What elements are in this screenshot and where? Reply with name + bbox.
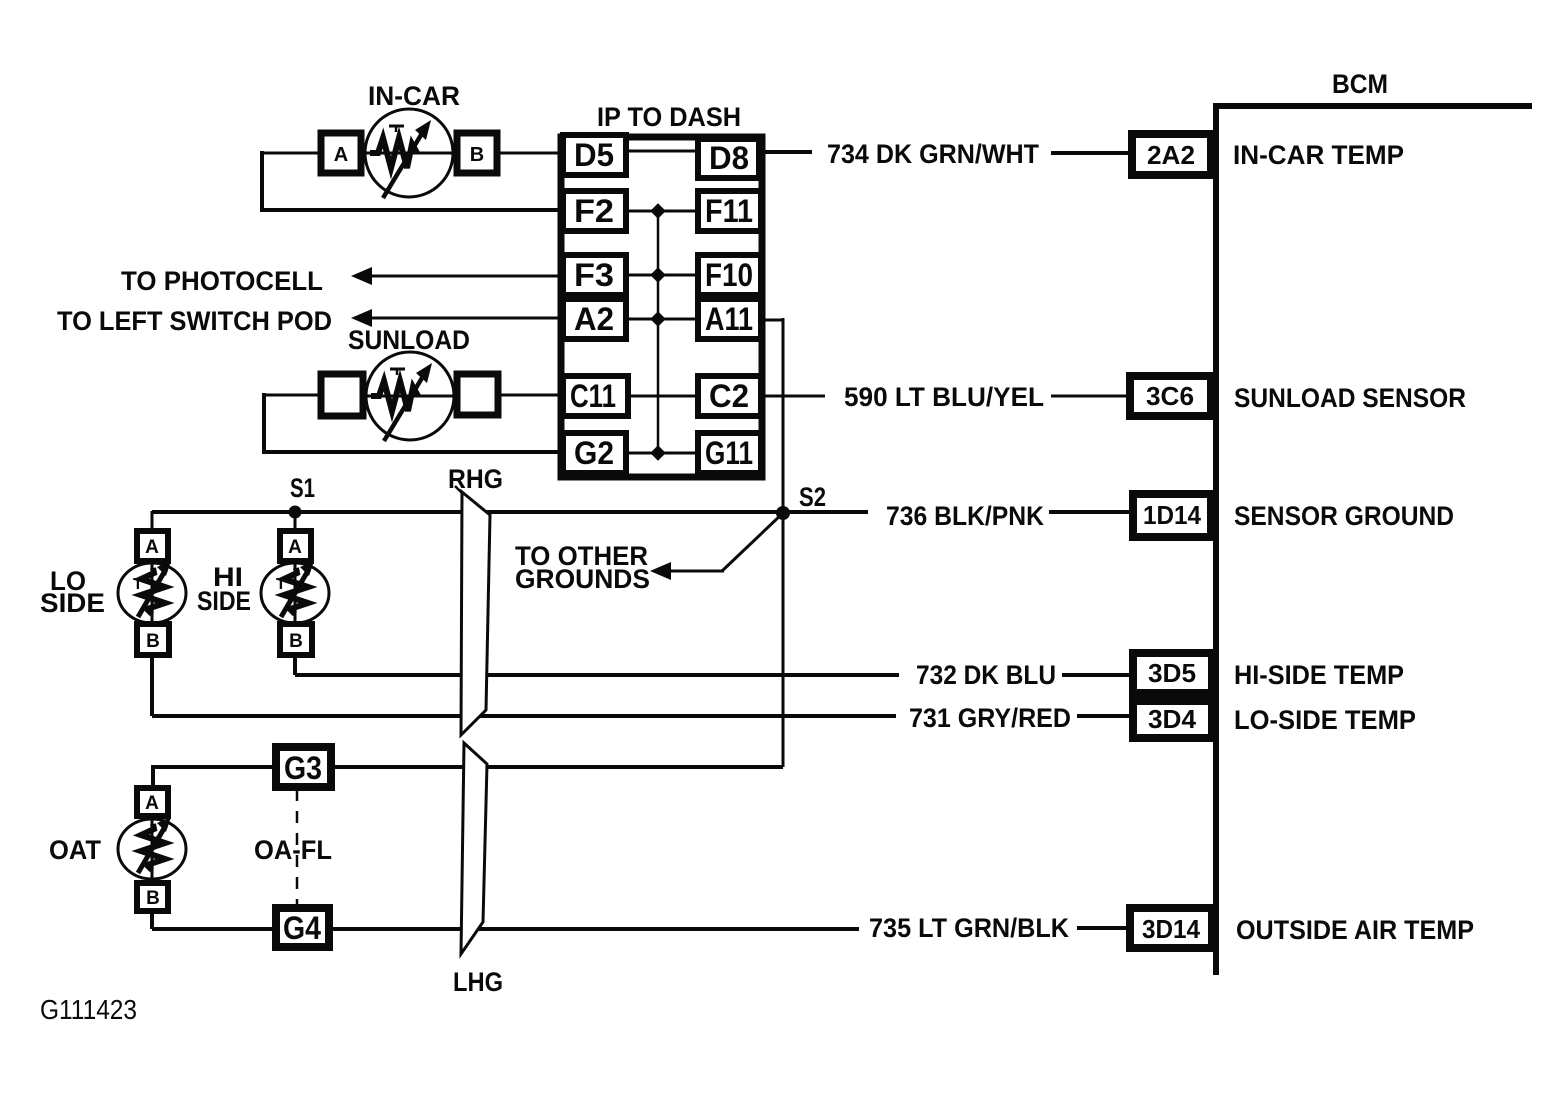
svg-text:OUTSIDE AIR TEMP: OUTSIDE AIR TEMP (1236, 915, 1474, 945)
svg-text:735 LT GRN/BLK: 735 LT GRN/BLK (869, 913, 1069, 943)
svg-text:S2: S2 (799, 482, 826, 512)
svg-text:A: A (334, 144, 348, 166)
svg-text:590 LT BLU/YEL: 590 LT BLU/YEL (844, 382, 1044, 412)
svg-text:D5: D5 (574, 137, 614, 173)
svg-text:TO PHOTOCELL: TO PHOTOCELL (121, 266, 323, 296)
svg-text:3D14: 3D14 (1142, 914, 1201, 944)
svg-text:IN-CAR: IN-CAR (368, 81, 460, 111)
svg-text:F3: F3 (574, 257, 614, 293)
svg-text:OA-FL: OA-FL (254, 835, 332, 865)
svg-text:TO LEFT SWITCH POD: TO LEFT SWITCH POD (57, 306, 332, 336)
svg-text:A: A (145, 537, 159, 558)
svg-text:1D14: 1D14 (1143, 500, 1202, 530)
svg-text:731 GRY/RED: 731 GRY/RED (909, 703, 1071, 733)
svg-text:OAT: OAT (49, 835, 101, 865)
svg-text:SUNLOAD: SUNLOAD (348, 325, 470, 355)
svg-text:SENSOR GROUND: SENSOR GROUND (1234, 501, 1454, 531)
svg-text:B: B (146, 888, 160, 909)
svg-text:G2: G2 (574, 435, 614, 471)
svg-text:IN-CAR TEMP: IN-CAR TEMP (1233, 140, 1404, 170)
svg-text:734 DK GRN/WHT: 734 DK GRN/WHT (827, 139, 1039, 169)
svg-text:T: T (133, 576, 143, 593)
svg-text:BCM: BCM (1332, 69, 1388, 99)
svg-text:T: T (276, 576, 286, 593)
svg-text:A: A (288, 537, 302, 558)
svg-text:F10: F10 (705, 257, 753, 293)
svg-text:732 DK BLU: 732 DK BLU (916, 660, 1056, 690)
svg-text:GROUNDS: GROUNDS (515, 564, 650, 594)
svg-text:B: B (146, 631, 160, 652)
svg-text:S1: S1 (290, 473, 315, 503)
svg-text:HI-SIDE TEMP: HI-SIDE TEMP (1234, 660, 1404, 690)
svg-text:B: B (289, 631, 303, 652)
svg-text:G11: G11 (705, 435, 753, 471)
svg-text:A: A (145, 793, 159, 814)
svg-text:LO-SIDE TEMP: LO-SIDE TEMP (1234, 705, 1416, 735)
svg-text:736 BLK/PNK: 736 BLK/PNK (886, 501, 1044, 531)
svg-text:2A2: 2A2 (1147, 140, 1195, 170)
svg-text:F2: F2 (574, 193, 614, 229)
svg-text:IP TO DASH: IP TO DASH (597, 102, 741, 132)
svg-text:F11: F11 (705, 193, 753, 229)
svg-text:3D5: 3D5 (1148, 658, 1196, 688)
svg-text:A11: A11 (705, 301, 753, 337)
svg-text:G3: G3 (284, 750, 322, 786)
svg-text:SIDE: SIDE (197, 586, 251, 616)
svg-text:3C6: 3C6 (1146, 381, 1194, 411)
svg-text:A2: A2 (574, 301, 614, 337)
svg-text:C11: C11 (570, 378, 616, 414)
svg-text:G4: G4 (283, 910, 321, 946)
svg-text:G111423: G111423 (40, 994, 137, 1025)
svg-text:D8: D8 (709, 140, 749, 176)
svg-text:B: B (470, 144, 484, 166)
svg-text:3D4: 3D4 (1148, 704, 1197, 734)
svg-text:SIDE: SIDE (40, 588, 105, 618)
svg-text:SUNLOAD SENSOR: SUNLOAD SENSOR (1234, 383, 1466, 413)
svg-text:C2: C2 (709, 378, 749, 414)
svg-text:RHG: RHG (448, 464, 503, 494)
svg-text:LHG: LHG (453, 967, 503, 997)
